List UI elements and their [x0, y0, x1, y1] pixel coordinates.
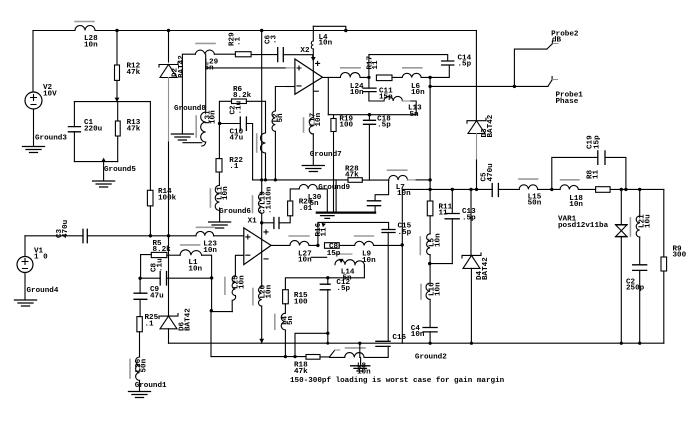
core bar L3bot — [346, 347, 365, 349]
wire L19 to X1 — [261, 213, 263, 223]
inductor L21 vertical — [636, 216, 640, 237]
segment 10n plate — [311, 256, 326, 258]
probe Probe2 — [547, 41, 553, 49]
svg-text:10n: 10n — [222, 186, 230, 200]
resistor R28 — [348, 178, 362, 183]
wire R15 to L4b — [284, 304, 286, 313]
svg-text:.1: .1 — [235, 36, 243, 46]
wire R26 top corner — [290, 189, 299, 201]
capacitor C17 — [367, 201, 380, 206]
wire V2 stem top — [32, 31, 34, 93]
svg-text:10V: 10V — [43, 90, 57, 98]
minus marker X2 — [314, 90, 318, 92]
ground Ground2sym — [351, 366, 370, 371]
core bar L23 — [197, 226, 215, 228]
wire C14 bottom — [430, 65, 449, 77]
wire y278 row — [140, 277, 212, 279]
wire C11 stem — [369, 77, 384, 101]
inductor L26 vertical — [136, 357, 140, 380]
core bar L9 — [355, 235, 374, 237]
diode D2 BAT42 — [159, 62, 178, 78]
svg-text:10n: 10n — [357, 369, 371, 377]
wire L14 to R15 row — [285, 266, 364, 289]
wire V1 top — [24, 236, 26, 257]
svg-text:10n: 10n — [188, 265, 202, 273]
capacitor C3 — [83, 229, 87, 242]
varistor VAR1 — [615, 225, 627, 237]
segment 15p plate — [336, 253, 352, 255]
svg-text:Ground3: Ground3 — [35, 134, 67, 142]
resistor R5 — [151, 252, 167, 257]
resistor R6 — [232, 99, 247, 104]
svg-text:11: 11 — [321, 227, 329, 237]
svg-text:BAT42: BAT42 — [487, 114, 495, 137]
ground Ground3 — [23, 147, 45, 153]
resistor R26 — [288, 201, 293, 216]
diode D3 BAT42 — [467, 118, 486, 133]
wire R6 right corner — [246, 101, 265, 133]
svg-text:10n: 10n — [411, 89, 425, 97]
svg-text:15p: 15p — [379, 94, 393, 102]
core bar L4b — [274, 315, 276, 330]
inductor L30 — [299, 184, 317, 189]
wire Lmid204 hook — [183, 142, 206, 146]
svg-text:Ground4: Ground4 — [27, 287, 59, 295]
wire y114.7 row — [328, 114, 416, 116]
svg-text:150-300pf loading is worst cas: 150-300pf loading is worst case for gain… — [290, 377, 505, 385]
op-amp X1 — [244, 228, 271, 265]
capacitor C6 — [278, 48, 284, 62]
capacitor C4 — [423, 328, 437, 332]
wire probe to L3 — [330, 356, 345, 358]
svg-text:.1u10n: .1u10n — [266, 186, 274, 214]
svg-text:Ground1: Ground1 — [135, 382, 167, 390]
wire C16bot corner — [364, 346, 388, 357]
plus marker X2 — [316, 61, 320, 65]
svg-text:11: 11 — [439, 210, 449, 218]
wire bus1 — [169, 342, 664, 344]
wire main out y86.4 — [430, 77, 548, 86]
svg-text:.5p: .5p — [458, 61, 472, 69]
wire V2 to ground3 — [33, 109, 35, 146]
resistor R18 — [306, 355, 320, 360]
capacitor C7 — [274, 218, 279, 229]
svg-text:10n: 10n — [84, 41, 98, 49]
svg-text:10n: 10n — [210, 110, 218, 124]
svg-text:1 0: 1 0 — [34, 254, 48, 262]
capacitor C14 — [442, 61, 454, 65]
svg-text:Ground7: Ground7 — [310, 151, 342, 159]
svg-text:10n: 10n — [362, 257, 376, 265]
core bar L21 — [629, 218, 631, 236]
junction arrow X2 power — [311, 57, 316, 61]
resistor R13 — [115, 121, 120, 136]
wire C7 to R26 — [279, 216, 290, 223]
core bar L7 — [388, 169, 407, 171]
wire D2 stem top — [168, 31, 170, 63]
wire L4b to bus2 — [284, 330, 286, 357]
wire X1 minus stub — [235, 255, 243, 275]
svg-text:.5p: .5p — [377, 121, 391, 129]
capacitor C9 — [134, 293, 147, 299]
svg-text:Ground6: Ground6 — [219, 208, 251, 216]
wire L5 bottom — [429, 255, 431, 283]
wire X2 plus input — [206, 67, 286, 69]
inductor L3bot — [345, 353, 364, 358]
svg-text:.5p: .5p — [398, 229, 412, 237]
core bar L24 — [341, 67, 360, 69]
wire R5 left corner — [141, 255, 152, 279]
resistor R9 — [661, 257, 667, 271]
junction arrow R12 — [115, 98, 120, 102]
wire R17 box top — [369, 55, 448, 78]
svg-text:X1: X1 — [248, 218, 258, 226]
core bar L5 — [419, 237, 421, 255]
core bar L29 — [196, 42, 215, 44]
svg-text:10n: 10n — [239, 275, 247, 289]
core bar L17 — [303, 118, 305, 132]
wire C12 column — [327, 278, 329, 343]
core bar L15 — [519, 178, 538, 180]
wire R5 to L1 — [167, 254, 180, 256]
wire L12 corner down — [411, 101, 416, 115]
wire C9 stem — [139, 278, 141, 316]
svg-text:.5p: .5p — [462, 214, 476, 222]
wire ground9 stub from y180 — [335, 180, 337, 213]
svg-text:300: 300 — [673, 252, 687, 260]
svg-text:5n: 5n — [287, 315, 295, 325]
resistor R25 — [137, 317, 142, 332]
wire L11 to ground6 — [219, 208, 221, 222]
wire D2-D6 column — [168, 142, 170, 316]
wire V1 row to C3 — [25, 235, 83, 237]
svg-text:15p: 15p — [594, 135, 602, 149]
source V2 — [25, 92, 42, 109]
core bar L27 — [289, 235, 309, 237]
resistor R19 — [333, 115, 335, 213]
svg-text:C16: C16 — [392, 334, 406, 342]
capacitor C18mid stem — [368, 115, 370, 180]
wire L25 bottom hook — [232, 296, 235, 312]
core bar L18 — [561, 179, 579, 181]
capacitor C13 — [445, 214, 459, 219]
capacitor C2 — [633, 265, 647, 271]
ground Ground5 — [93, 181, 115, 187]
inductor LR6col vertical — [261, 133, 266, 153]
inductor L9 — [355, 241, 374, 245]
wire X1 power column — [261, 223, 263, 287]
wire R13 column — [117, 102, 119, 162]
inductor Lmid204 vertical — [201, 54, 206, 142]
core bar L1 — [181, 244, 200, 246]
capacitor C5 — [492, 184, 498, 197]
svg-text:.1: .1 — [229, 163, 239, 171]
wire C7 row — [262, 222, 274, 224]
junction arrow Ground5 — [101, 158, 106, 162]
wire L1 corner down — [202, 255, 212, 278]
wire D4 to bus — [470, 268, 472, 343]
probe Probe1 — [548, 77, 552, 87]
inductor L25 vertical — [232, 276, 235, 296]
svg-text:11: 11 — [372, 60, 380, 70]
wire C10 right corner down — [246, 124, 252, 180]
svg-text:10n: 10n — [315, 112, 323, 126]
resistor R11 — [427, 201, 433, 216]
wire C6 to X2 corner — [283, 55, 312, 59]
resistor R29 — [235, 52, 251, 57]
svg-text:.1u: .1u — [236, 100, 244, 114]
ground Ground1 — [129, 392, 151, 398]
inductor L5 vertical — [427, 234, 431, 255]
inductor L20 vertical — [259, 287, 262, 306]
wire C4 to bus — [429, 332, 431, 343]
wire L30 to ground9 — [317, 189, 327, 213]
wire R6 left branch — [219, 101, 231, 123]
wire L17 to ground7 — [312, 134, 314, 165]
inductor L12 — [384, 96, 402, 101]
svg-text:100: 100 — [294, 298, 308, 306]
wire C17 bottom stem — [374, 206, 376, 213]
core bar L25 — [224, 278, 226, 295]
plus marker X1 — [264, 230, 268, 234]
capacitor C18mid — [364, 120, 376, 124]
wire L21 column — [639, 189, 641, 343]
wire R14 column — [149, 102, 151, 236]
ground Ground8 — [171, 134, 193, 140]
svg-text:Ground8: Ground8 — [174, 105, 206, 113]
wire Lx276 bottom — [274, 131, 276, 180]
wire LR6col bottom — [265, 153, 267, 180]
core bar L20 — [252, 289, 254, 305]
junction arrow L20 bus — [259, 339, 264, 343]
svg-text:470u: 470u — [487, 163, 495, 182]
core bar L26 — [129, 360, 131, 379]
wire L3 junction stub — [359, 343, 362, 365]
inductor L17 vertical — [309, 118, 313, 134]
capacitor C16bot — [376, 341, 390, 346]
wire L29 to R29 — [214, 53, 235, 55]
core bar L28 — [75, 21, 94, 23]
svg-text:Ground2: Ground2 — [415, 354, 447, 362]
svg-text:47k: 47k — [127, 125, 141, 133]
wire x211 to bus2 — [211, 278, 232, 357]
svg-text:Ground5: Ground5 — [104, 166, 136, 174]
inductor Lx276 vertical — [272, 111, 275, 131]
inductor L23 — [196, 231, 214, 235]
svg-text:10u: 10u — [645, 214, 653, 228]
inductor L11 vertical — [215, 185, 219, 210]
minus marker X1 — [264, 258, 268, 260]
capacitor C19 — [598, 151, 605, 164]
svg-text:47u: 47u — [150, 292, 164, 300]
svg-text:10n: 10n — [435, 282, 443, 296]
core bar L19 — [252, 196, 254, 213]
core bar L16 — [420, 285, 422, 300]
wire R25 to L26 — [139, 332, 141, 357]
wire R22 column — [218, 124, 220, 186]
inductor L1 — [180, 250, 202, 255]
wire D6 to bus1 — [168, 329, 170, 343]
inductor L16 vertical — [426, 283, 430, 299]
wire X2 out row — [323, 76, 431, 78]
svg-text:10n: 10n — [411, 331, 425, 339]
wire L23 to X1 plus — [214, 235, 244, 237]
svg-text:10n: 10n — [397, 190, 411, 198]
svg-text:dB: dB — [552, 37, 562, 45]
svg-text:47k: 47k — [345, 172, 359, 180]
svg-text:11: 11 — [593, 169, 601, 179]
wire box bottom — [74, 161, 117, 163]
resistor R14 — [147, 190, 153, 206]
svg-text:47k: 47k — [127, 69, 141, 77]
svg-text:50n: 50n — [528, 200, 542, 208]
svg-text:.1u: .1u — [157, 258, 165, 272]
wire L20 to bus — [261, 306, 263, 343]
wire L26 to ground1 — [139, 381, 141, 392]
svg-text:Phase: Phase — [556, 98, 579, 106]
wire X2 minus input — [286, 86, 295, 88]
capacitor C1 — [68, 127, 80, 132]
svg-text:50n: 50n — [141, 358, 149, 372]
resistor R16c — [325, 243, 340, 249]
inductor L7 — [389, 175, 408, 180]
inductor L19 vertical — [258, 194, 261, 214]
wire D3 bottom — [476, 134, 478, 161]
inductor L15 — [519, 185, 537, 190]
svg-text:8.2k: 8.2k — [153, 246, 172, 254]
wire C1 left branch — [73, 102, 75, 162]
svg-text:10n: 10n — [203, 247, 217, 255]
resistor R8 — [596, 187, 611, 193]
svg-text:10n: 10n — [569, 201, 583, 209]
wire R29 to C6 — [251, 54, 278, 56]
svg-text:10n: 10n — [298, 257, 312, 265]
wire ground8 branch — [182, 54, 195, 133]
inductor L29 — [195, 50, 214, 54]
core bar L11 — [209, 189, 211, 207]
wire top net y=30.5 — [33, 30, 476, 32]
junction arrow box corner — [322, 223, 326, 227]
wire main row y189.4 — [402, 188, 664, 190]
wire x430 column upper — [429, 86, 431, 233]
wire x328 up to out row — [327, 77, 329, 114]
junction arrow L14 — [339, 259, 344, 263]
wire V1 to ground4 — [24, 273, 26, 300]
wire x402 column — [401, 189, 403, 343]
wire L7 to x430 — [416, 179, 430, 181]
wire L7 lead gray — [408, 179, 417, 181]
wire bus2 row — [211, 356, 330, 358]
probe2 branch — [514, 49, 546, 86]
svg-text:250p: 250p — [626, 285, 645, 293]
wire C3 to L23 — [87, 235, 196, 237]
core bar Lmid204 — [195, 116, 197, 137]
capacitor C8b — [160, 272, 166, 286]
capacitor C12 — [320, 284, 330, 290]
svg-text:10n: 10n — [350, 89, 364, 97]
svg-text:15p: 15p — [327, 250, 341, 258]
svg-text:47k: 47k — [294, 368, 308, 376]
wire D4 column — [470, 189, 472, 255]
svg-text:BAT42: BAT42 — [482, 257, 490, 280]
svg-text:.01: .01 — [299, 205, 313, 213]
svg-text:8.2k: 8.2k — [233, 92, 252, 100]
wire X2 power column — [312, 49, 314, 118]
inductor L18 — [560, 185, 578, 190]
svg-text:47u: 47u — [230, 135, 244, 143]
wire y180 row — [253, 179, 389, 181]
svg-text:5n: 5n — [205, 64, 215, 72]
resistor R17 — [376, 75, 392, 81]
wire C17 top — [375, 180, 389, 201]
inductor L6 — [402, 73, 421, 77]
svg-text:BAT42: BAT42 — [185, 308, 193, 331]
capacitor C15 — [382, 230, 395, 233]
wire box C1 R13 top — [74, 101, 150, 103]
wire y333 stub — [295, 333, 328, 356]
svg-text:Ground9: Ground9 — [318, 184, 350, 192]
wire R12 column — [116, 31, 118, 102]
wire D3 column — [475, 31, 477, 121]
resistor R15 — [283, 290, 289, 304]
wire Ground5 stem — [103, 162, 105, 181]
inductor L4b vertical — [281, 313, 285, 330]
wire C10 row — [219, 123, 240, 125]
wire L16 to C4 — [429, 300, 431, 328]
svg-text:5n: 5n — [277, 113, 285, 123]
inductor L24 — [340, 73, 360, 78]
core bar L6 — [403, 67, 422, 69]
svg-text:.1: .1 — [145, 320, 155, 328]
wire C19 loop — [552, 157, 626, 189]
diode D4 BAT42 — [462, 253, 481, 269]
capacitor C10 — [240, 117, 246, 130]
inductor L27 — [290, 241, 309, 246]
ground Ground6 — [209, 222, 231, 228]
wire X1 node column — [261, 31, 263, 194]
core bar LR6col — [256, 134, 258, 152]
svg-text:.5p: .5p — [336, 285, 350, 293]
wire X1 out row — [271, 244, 402, 246]
wire X2 plus input gray — [286, 67, 295, 69]
wire R16 box — [318, 222, 389, 245]
svg-text:10n: 10n — [319, 39, 333, 47]
svg-text:100: 100 — [339, 121, 353, 129]
wire L12 lead gray — [403, 100, 412, 102]
inductor L14 — [335, 260, 355, 265]
wire TVS column — [620, 189, 622, 343]
svg-text:X2: X2 — [300, 47, 310, 55]
capacitor C11 — [363, 88, 376, 92]
diode D6 BAT42 — [159, 314, 178, 329]
svg-text:BAT42: BAT42 — [178, 55, 186, 78]
svg-text:10n: 10n — [435, 233, 443, 247]
svg-text:220u: 220u — [84, 125, 103, 133]
ground Ground9 — [317, 212, 375, 214]
probe R18 tap — [330, 351, 335, 357]
inductor L28 — [75, 26, 95, 31]
svg-text:.3: .3 — [271, 34, 279, 44]
source V1 — [17, 257, 33, 273]
wire D2 bottom gray — [168, 78, 170, 143]
wire C13 stem — [451, 189, 453, 263]
op-amp X2 — [295, 59, 323, 94]
wire L5 branch to C13 — [430, 263, 453, 265]
wire X2 jog top — [313, 26, 346, 30]
svg-text:5n: 5n — [410, 111, 420, 119]
ground Ground4 — [15, 300, 37, 306]
inductor L4top vertical — [311, 26, 313, 49]
